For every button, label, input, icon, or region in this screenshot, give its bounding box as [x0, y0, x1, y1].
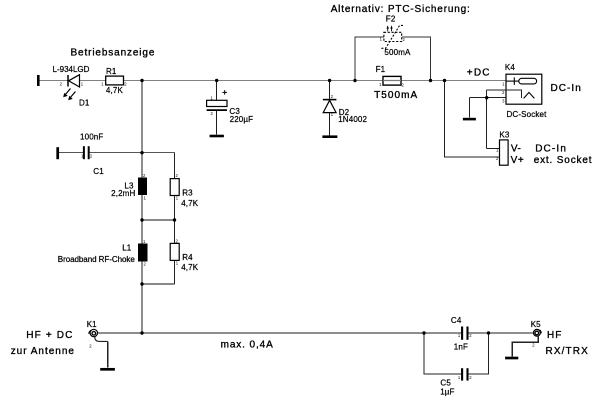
svg-text:F2: F2: [386, 15, 396, 24]
svg-text:+DC: +DC: [467, 68, 491, 79]
svg-text:2,2mH: 2,2mH: [111, 189, 135, 198]
svg-text:Alternativ: PTC-Sicherung:: Alternativ: PTC-Sicherung:: [331, 4, 471, 15]
svg-text:K4: K4: [505, 63, 515, 72]
svg-text:4,7K: 4,7K: [106, 86, 124, 95]
svg-text:100nF: 100nF: [80, 133, 103, 142]
svg-text:1N4002: 1N4002: [338, 115, 367, 124]
svg-text:220µF: 220µF: [230, 115, 254, 124]
svg-text:V+: V+: [511, 155, 525, 166]
svg-text:C4: C4: [451, 316, 462, 325]
svg-text:1µF: 1µF: [440, 388, 454, 397]
svg-text:4,7K: 4,7K: [181, 263, 199, 272]
svg-text:D1: D1: [79, 99, 90, 108]
svg-text:Betriebsanzeige: Betriebsanzeige: [71, 48, 156, 59]
svg-text:R1: R1: [106, 67, 117, 76]
svg-text:4,7K: 4,7K: [181, 199, 199, 208]
svg-text:C1: C1: [93, 167, 104, 176]
svg-text:R4: R4: [182, 253, 193, 262]
svg-text:F1: F1: [376, 65, 386, 74]
svg-text:T500mA: T500mA: [374, 90, 418, 101]
svg-text:zur Antenne: zur Antenne: [11, 346, 75, 357]
svg-text:HF + DC: HF + DC: [26, 330, 73, 341]
svg-text:RX/TRX: RX/TRX: [546, 346, 589, 357]
svg-text:K3: K3: [499, 130, 509, 139]
svg-text:K1: K1: [87, 320, 97, 329]
svg-text:V-: V-: [511, 144, 522, 155]
svg-text:Broadband RF-Choke: Broadband RF-Choke: [58, 255, 136, 264]
svg-text:1nF: 1nF: [454, 343, 468, 352]
svg-text:DC-Socket: DC-Socket: [507, 110, 548, 119]
svg-text:500mA: 500mA: [384, 48, 411, 57]
svg-text:L1: L1: [122, 244, 132, 253]
svg-text:DC-In: DC-In: [535, 144, 567, 155]
svg-text:K5: K5: [531, 320, 541, 329]
svg-text:R3: R3: [182, 189, 193, 198]
svg-text:HF: HF: [547, 330, 562, 341]
svg-text:DC-In: DC-In: [551, 83, 582, 94]
svg-text:max. 0,4A: max. 0,4A: [221, 339, 274, 350]
svg-text:L-934LGD: L-934LGD: [53, 65, 90, 74]
svg-text:ext. Socket: ext. Socket: [534, 155, 593, 166]
svg-text:C5: C5: [440, 378, 451, 387]
